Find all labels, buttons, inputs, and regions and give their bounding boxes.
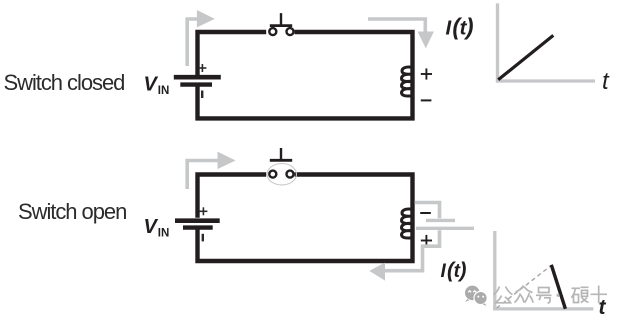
push-button switch (open, bottom circuit): raised bar <box>270 159 292 162</box>
svg-text:V: V <box>144 216 159 238</box>
gray current arrow (bottom circuit, left, pointing right) <box>187 152 235 189</box>
svg-text:IN: IN <box>158 85 170 97</box>
svg-text:Switch open: Switch open <box>18 199 126 224</box>
gray discharge current loop (bottom circuit): top lead from inductor <box>415 203 440 219</box>
battery VIN (bottom circuit) plates <box>175 221 220 228</box>
svg-text:I(t): I(t) <box>441 259 467 282</box>
battery plus sign (bottom circuit) <box>199 207 207 215</box>
svg-text:Switch closed: Switch closed <box>4 70 125 95</box>
gray equivalent-source long plate <box>416 227 474 230</box>
inductor plus sign (bottom circuit, bottom) <box>421 235 432 246</box>
battery minus tick (bottom circuit) <box>202 234 204 242</box>
graph 2 falling current line <box>551 265 565 309</box>
svg-text:t: t <box>602 68 610 95</box>
gray current arrow (top circuit, left, pointing right-up) <box>187 10 215 66</box>
十 <box>591 293 608 295</box>
svg-text:I(t): I(t) <box>446 14 474 40</box>
wire: bottom circuit right side + bottom <box>198 175 413 262</box>
公 <box>494 287 500 295</box>
gray highlight ellipse around open switch <box>267 164 296 185</box>
graph 1 rising current line <box>498 35 553 79</box>
graph 1 vertical axis <box>496 3 499 82</box>
众 <box>516 286 524 293</box>
号 <box>539 288 550 293</box>
watermark WeChat icon: small bubble <box>474 291 487 305</box>
battery VIN (top circuit) plates <box>174 77 221 84</box>
gray discharge loop: right drop, jog and return arrow <box>369 230 439 280</box>
push-button switch (open, bottom circuit): stem <box>280 148 282 159</box>
battery minus tick (top circuit) <box>201 91 203 99</box>
gray current arrow (top circuit, right, pointing down into inductor) <box>368 19 434 48</box>
push-button switch contact circles (bottom circuit) <box>269 171 276 178</box>
graph 2 vertical axis <box>493 231 496 310</box>
watermark text 公众号·硬十 (drawn strokes) <box>494 286 608 304</box>
· <box>556 294 559 297</box>
svg-text:t: t <box>599 296 607 319</box>
graph 2 horizontal axis <box>493 307 593 310</box>
inductor plus sign (top circuit) <box>421 68 432 79</box>
battery plus sign (top circuit) <box>198 64 206 72</box>
push-button switch (closed, top circuit): stem <box>280 13 282 25</box>
wire: top circuit top-left L (switch to battery) <box>198 32 267 75</box>
wire: top circuit right side + bottom (switch to battery minus) <box>198 32 413 118</box>
inductor coil (bottom circuit) <box>402 209 414 238</box>
硬 <box>572 287 581 289</box>
inductor minus sign (bottom circuit, top) <box>420 212 431 214</box>
gray equivalent-source short plate <box>426 219 455 222</box>
graph 1 horizontal axis <box>496 79 595 82</box>
push-button switch contact circles (top circuit) <box>269 28 276 35</box>
wire: bottom circuit top-left L (switch to battery) <box>198 175 267 218</box>
svg-text:V: V <box>144 74 159 96</box>
svg-text:IN: IN <box>158 228 170 240</box>
push-button switch (closed, top circuit): bar touching contacts <box>270 24 292 27</box>
watermark WeChat icon: big bubble <box>465 286 480 302</box>
graph 2 dashed ramp-up reference line <box>497 265 552 308</box>
inductor coil (top circuit) <box>402 67 414 96</box>
inductor minus sign (top circuit) <box>421 99 432 101</box>
